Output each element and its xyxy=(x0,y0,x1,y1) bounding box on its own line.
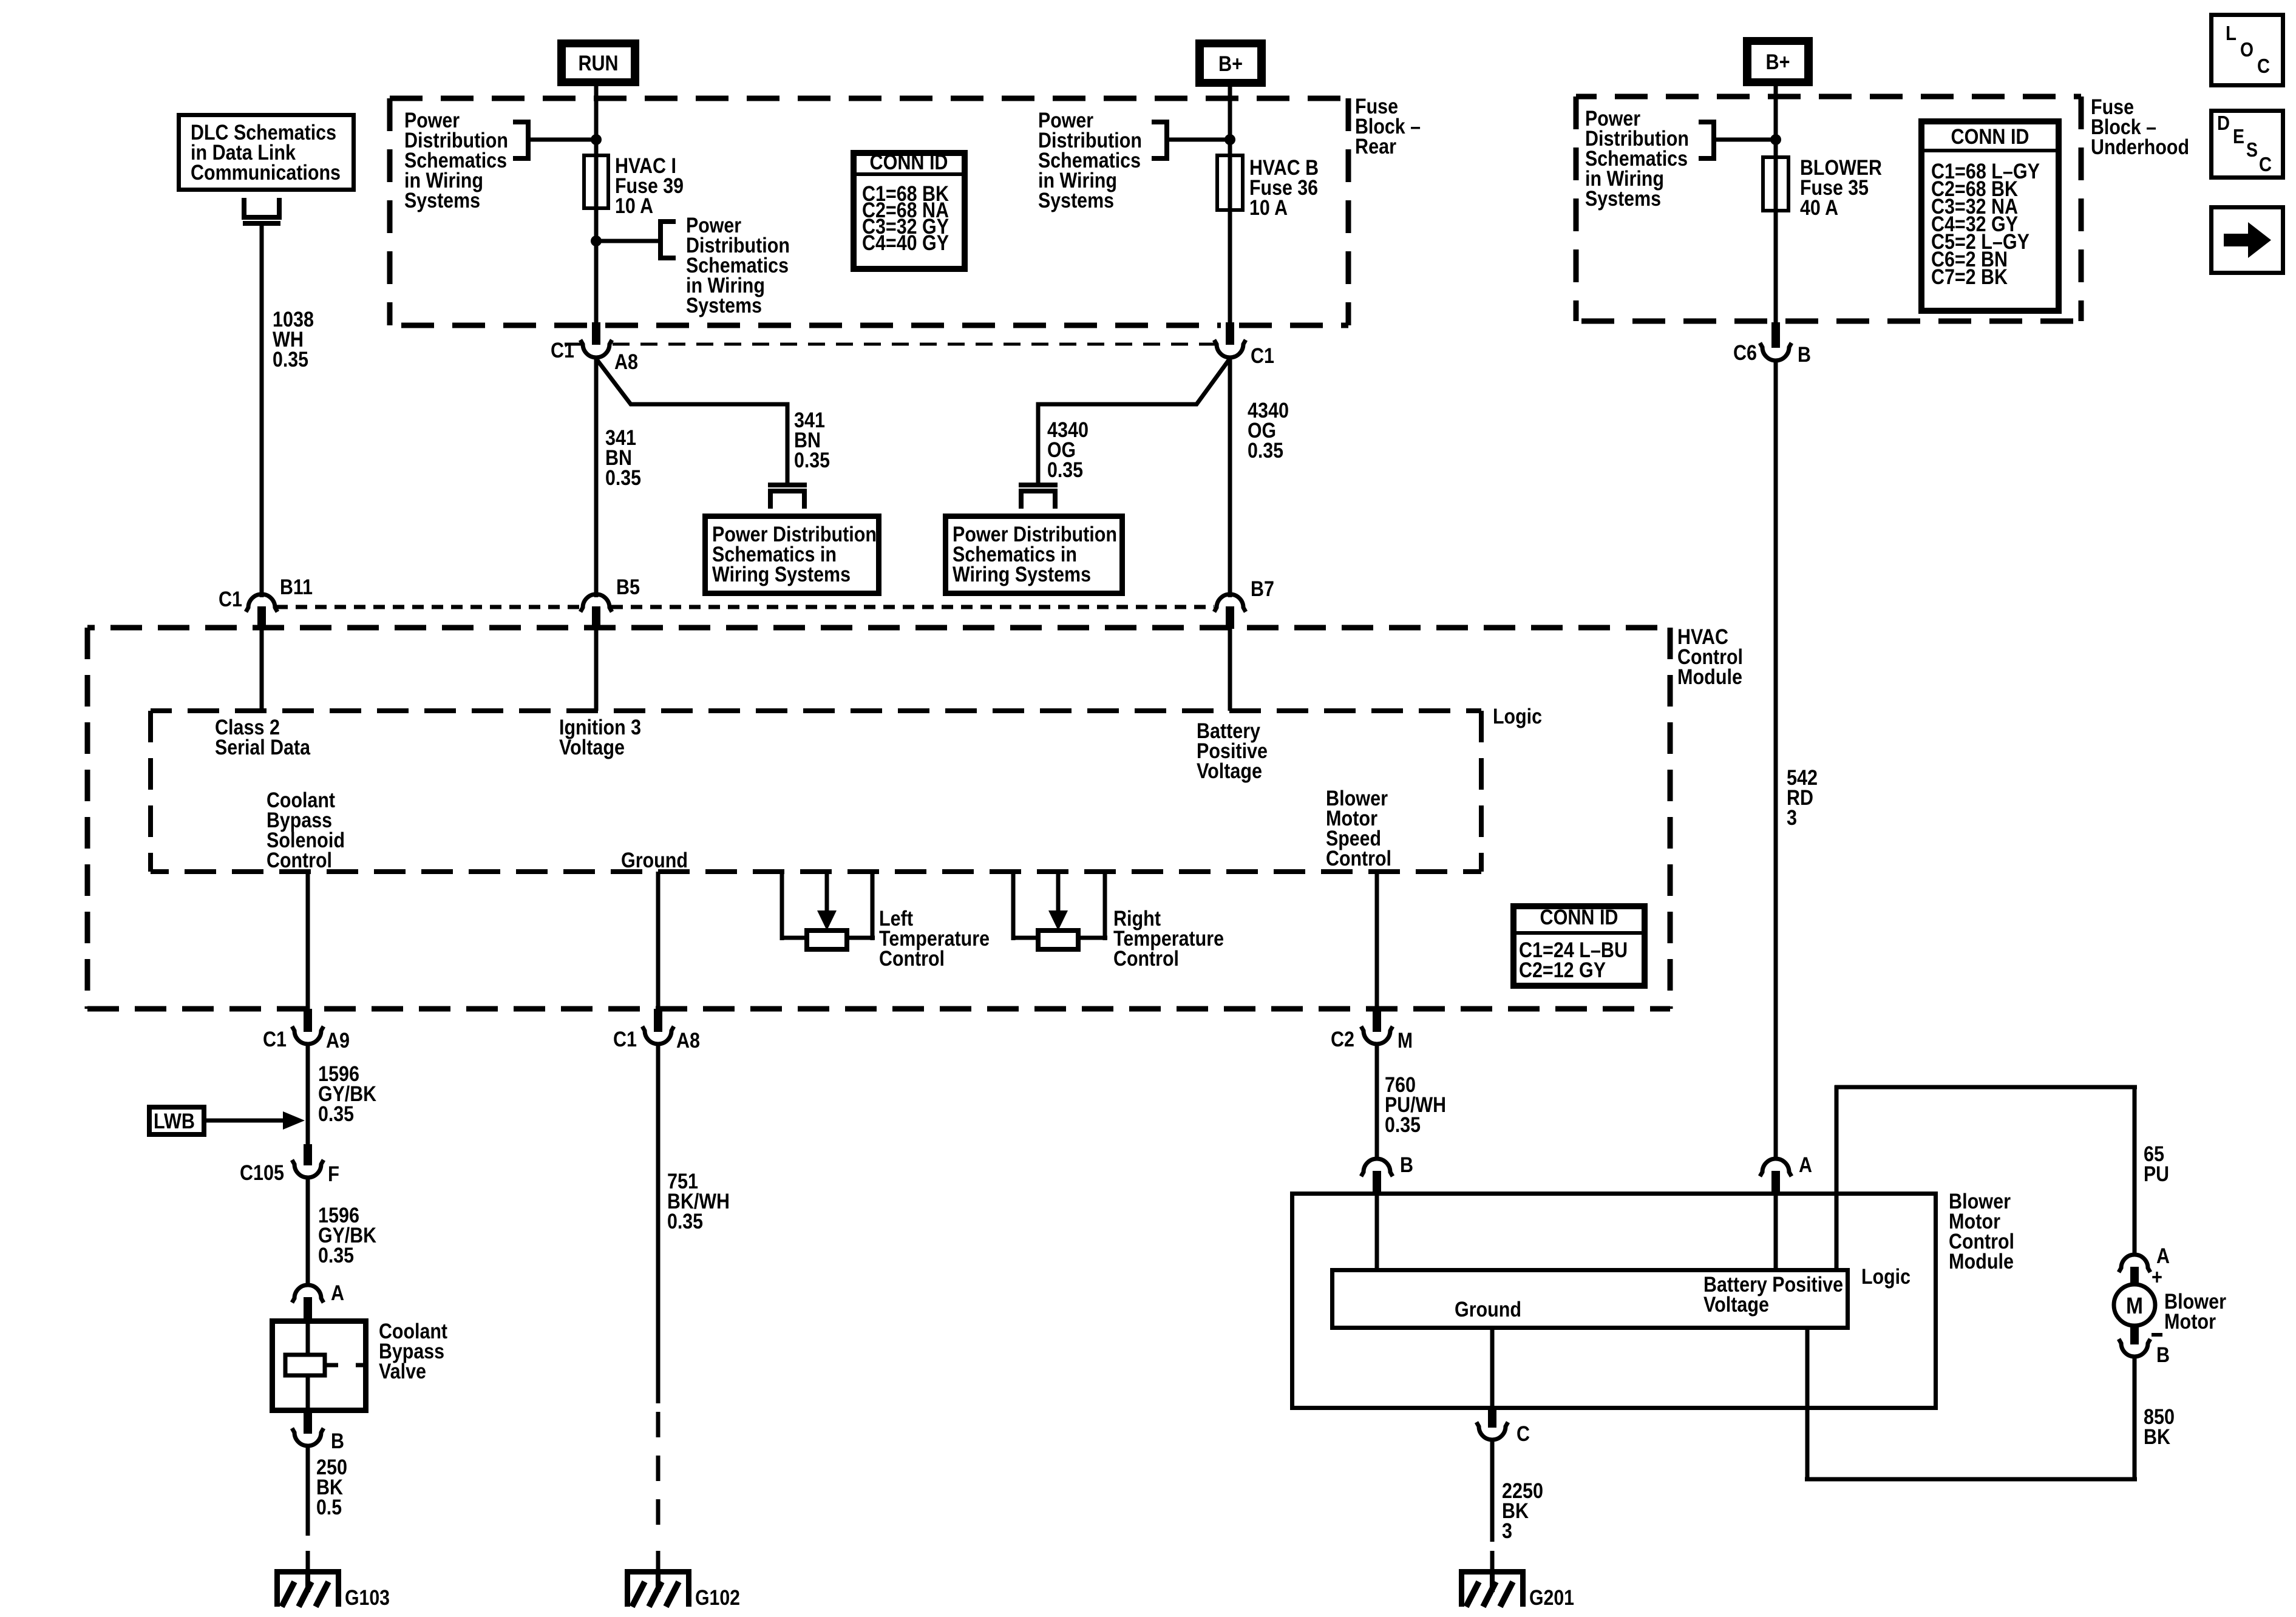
svg-text:RUN: RUN xyxy=(579,52,619,75)
svg-text:PU: PU xyxy=(2144,1162,2169,1186)
svg-text:0.35: 0.35 xyxy=(667,1210,703,1233)
svg-text:A8: A8 xyxy=(676,1029,700,1053)
svg-text:C105: C105 xyxy=(240,1161,284,1185)
svg-text:A: A xyxy=(1799,1153,1812,1177)
label A (blower module) xyxy=(1799,1153,1812,1177)
label B11 xyxy=(280,575,313,599)
fuse BLOWER Fuse 35 40 A xyxy=(1763,157,1788,211)
svg-text:10 A: 10 A xyxy=(1249,196,1288,220)
svg-text:G201: G201 xyxy=(1529,1586,1574,1610)
svg-text:Systems: Systems xyxy=(1038,189,1114,212)
svg-text:L: L xyxy=(2226,22,2237,44)
bracket to run feed wire xyxy=(513,120,596,161)
connector cup C1/A8 xyxy=(642,1026,674,1044)
svg-text:Systems: Systems xyxy=(686,294,762,317)
svg-text:S: S xyxy=(2246,138,2258,161)
connector cup C1/A8 xyxy=(580,340,612,358)
connector stub B into module xyxy=(1373,1171,1381,1193)
svg-text:A8: A8 xyxy=(614,350,638,374)
note Power Distribution Schematics in Wiring Systems (below fuse 39) xyxy=(686,214,790,317)
label Battery Positive Voltage xyxy=(1197,719,1268,783)
svg-text:0.35: 0.35 xyxy=(794,449,830,472)
label 250 BK 0.5 xyxy=(316,1456,347,1519)
wire 1038 from DLC to HVAC control module xyxy=(260,226,264,597)
connector dome B5 xyxy=(580,594,612,612)
label Blower Motor Speed Control xyxy=(1326,787,1391,870)
label A9 xyxy=(326,1029,350,1053)
svg-text:C1: C1 xyxy=(263,1028,287,1051)
connector cup C xyxy=(1476,1422,1508,1440)
svg-text:C: C xyxy=(2259,153,2272,175)
svg-text:CONN ID: CONN ID xyxy=(1951,125,2029,149)
wire 751 dashed part xyxy=(656,1412,661,1542)
label 760 PU/WH 0.35 xyxy=(1385,1073,1446,1137)
connector stub C6 xyxy=(1771,322,1780,348)
label C1 (A8) xyxy=(551,339,574,362)
label C105 xyxy=(240,1161,284,1185)
label 542 RD 3 xyxy=(1787,766,1818,830)
connector stub below B5 xyxy=(592,606,600,629)
connector dome A (blower module) xyxy=(1760,1159,1792,1176)
svg-text:O: O xyxy=(2240,38,2254,61)
wire 1596 lower xyxy=(306,1178,310,1287)
left temperature control potentiometer xyxy=(780,869,875,949)
svg-text:M: M xyxy=(1398,1029,1413,1053)
svg-text:E: E xyxy=(2233,125,2244,147)
svg-text:Wiring Systems: Wiring Systems xyxy=(712,563,851,586)
label Logic (blower module) xyxy=(1861,1265,1911,1289)
svg-text:B+: B+ xyxy=(1766,50,1790,74)
wire 250 BK xyxy=(306,1446,310,1536)
label Battery Positive Voltage (blower module) xyxy=(1703,1273,1843,1317)
label 341 BN 0.35 (branch) xyxy=(794,408,830,472)
wire RUN to fuse 39 xyxy=(594,86,599,324)
label 1596 GY/BK 0.35 (upper) xyxy=(318,1062,376,1126)
svg-text:40 A: 40 A xyxy=(1800,196,1838,220)
svg-text:3: 3 xyxy=(1502,1519,1512,1543)
svg-text:A9: A9 xyxy=(326,1029,350,1053)
label F xyxy=(328,1162,339,1186)
connector cup C1/A9 xyxy=(292,1026,324,1044)
connector cup C105/F xyxy=(292,1160,324,1178)
wire 850 BK xyxy=(1805,1330,2137,1482)
wire 760 PU/WH xyxy=(1375,1044,1379,1161)
wire 1596 upper xyxy=(306,1044,310,1146)
junction node on run feed xyxy=(591,134,602,145)
svg-text:Voltage: Voltage xyxy=(559,736,625,759)
connector stub below B11 xyxy=(257,606,266,629)
label Right Temperature Control xyxy=(1113,907,1224,971)
note Power Distribution Schematics in Wiring Systems (B+ rear) xyxy=(1038,109,1142,212)
svg-text:B: B xyxy=(331,1429,344,1453)
label A (blower motor) xyxy=(2156,1244,2170,1268)
svg-text:F: F xyxy=(328,1162,339,1186)
junction node on underhood feed xyxy=(1770,134,1781,145)
ground G102 xyxy=(625,1569,740,1610)
connector stub A to valve xyxy=(304,1297,312,1318)
label C1 (B11) xyxy=(219,588,242,611)
connector dome C1/B11 xyxy=(246,594,277,612)
connector dome B (blower module) xyxy=(1361,1159,1393,1176)
short-dash connector line at HVAC top xyxy=(276,605,1214,609)
fuse HVAC I Fuse 39 10 A xyxy=(584,155,608,208)
HVAC control module dashed outline xyxy=(87,628,1670,1009)
connector dome B7 xyxy=(1214,594,1246,612)
svg-text:LWB: LWB xyxy=(154,1110,195,1133)
svg-text:Communications: Communications xyxy=(191,161,341,185)
svg-text:D: D xyxy=(2217,112,2230,134)
svg-text:B11: B11 xyxy=(280,575,313,599)
right temperature control potentiometer xyxy=(1011,869,1108,949)
svg-text:B7: B7 xyxy=(1251,577,1274,601)
svg-text:Control: Control xyxy=(1326,847,1391,870)
svg-text:C: C xyxy=(2257,55,2270,77)
LWB arrow xyxy=(206,1111,305,1130)
svg-text:Systems: Systems xyxy=(404,189,480,212)
CONN ID table (fuse block underhood) xyxy=(1921,121,2059,311)
svg-text:Module: Module xyxy=(1677,665,1742,689)
label B (C6) xyxy=(1798,343,1811,367)
label C1 (B+ rear) xyxy=(1251,344,1274,368)
connector bracket above power distribution box (left) xyxy=(768,483,807,509)
svg-text:Rear: Rear xyxy=(1355,135,1396,158)
LWB reference box xyxy=(149,1107,204,1134)
wire 542 RD 3 xyxy=(1774,361,1778,1161)
svg-text:Serial Data: Serial Data xyxy=(215,736,310,759)
svg-text:B: B xyxy=(1400,1153,1413,1177)
svg-text:B5: B5 xyxy=(616,575,640,599)
wire label 1038 WH 0.35 xyxy=(273,308,314,371)
svg-text:C1: C1 xyxy=(613,1028,637,1051)
label A8 xyxy=(614,350,638,374)
wire class 2 serial data into module xyxy=(260,629,264,711)
label Coolant Bypass Valve xyxy=(379,1320,447,1383)
svg-text:Ground: Ground xyxy=(621,849,688,872)
connector stub C xyxy=(1488,1410,1496,1428)
power feed box B+ (rear) xyxy=(1195,39,1266,87)
svg-text:B: B xyxy=(2156,1343,2170,1367)
label Left Temperature Control xyxy=(879,907,990,971)
label 4340 OG 0.35 (main) xyxy=(1248,399,1289,463)
connector cup B (blower motor) xyxy=(2119,1339,2150,1357)
svg-text:0.35: 0.35 xyxy=(1385,1113,1421,1137)
svg-text:+: + xyxy=(2152,1266,2162,1289)
connector stub C1 A8 xyxy=(592,322,600,345)
svg-text:A: A xyxy=(331,1281,344,1305)
label Ground (HVAC) xyxy=(621,849,688,872)
svg-text:Motor: Motor xyxy=(2164,1310,2216,1334)
svg-text:C4=40 GY: C4=40 GY xyxy=(862,231,949,255)
note Power Distribution Schematics in Wiring Systems (run feed) xyxy=(404,109,508,212)
label Ignition 3 Voltage xyxy=(559,716,641,759)
ground G103 xyxy=(274,1569,390,1610)
label 2250 BK 3 xyxy=(1502,1479,1543,1543)
connector dome A (valve) xyxy=(292,1285,324,1303)
label HVAC Control Module xyxy=(1677,625,1743,689)
connector cup C6/B xyxy=(1760,343,1792,361)
svg-text:C2: C2 xyxy=(1331,1028,1354,1051)
forward arrow box xyxy=(2212,208,2283,273)
svg-text:0.35: 0.35 xyxy=(318,1244,354,1267)
ground stem G201 xyxy=(1490,1551,1495,1569)
bracket to power distribution note (right) xyxy=(596,219,676,260)
svg-text:M: M xyxy=(2126,1293,2143,1319)
svg-text:C1: C1 xyxy=(551,339,574,362)
svg-text:A: A xyxy=(2156,1244,2170,1268)
connector stub C105 xyxy=(304,1144,312,1165)
label A (valve) xyxy=(331,1281,344,1305)
wire blower motor speed control xyxy=(1375,872,1379,1009)
wire ground from logic box xyxy=(1490,1330,1495,1410)
svg-text:Ground: Ground xyxy=(1455,1298,1521,1321)
wire B+ underhood to fuse 35 xyxy=(1774,86,1778,324)
power feed box B+ (underhood) xyxy=(1743,37,1813,86)
svg-text:Control: Control xyxy=(267,849,332,872)
label B (blower motor) xyxy=(2156,1343,2170,1367)
connector stub below B7 xyxy=(1226,606,1234,629)
svg-text:Systems: Systems xyxy=(1585,187,1661,211)
svg-text:Logic: Logic xyxy=(1861,1265,1911,1289)
svg-text:C6: C6 xyxy=(1733,341,1757,365)
label B5 xyxy=(616,575,640,599)
label Fuse Block Underhood xyxy=(2091,95,2189,159)
label B7 xyxy=(1251,577,1274,601)
wire ignition 3 voltage into module xyxy=(594,629,599,711)
label B (valve) xyxy=(331,1429,344,1453)
svg-text:0.5: 0.5 xyxy=(316,1496,342,1519)
connector stub C1 (B+ rear) xyxy=(1226,322,1234,345)
wire coolant bypass solenoid control xyxy=(306,872,310,1009)
label 850 BK xyxy=(2144,1405,2175,1449)
fuse HVAC B Fuse 36 10 A xyxy=(1217,155,1243,210)
label Ground (blower module) xyxy=(1455,1298,1521,1321)
power distribution schematics box (left) xyxy=(705,517,879,594)
wire B+ to fuse 36 xyxy=(1228,87,1232,324)
label C1 xyxy=(263,1028,287,1051)
connector bracket above power distribution box (right) xyxy=(1019,483,1058,509)
svg-text:B: B xyxy=(1798,343,1811,367)
wire ground (HVAC) xyxy=(656,872,661,1009)
label 751 BK/WH 0.35 xyxy=(667,1170,730,1233)
wire loop from logic to blower motor (65 PU) xyxy=(1835,1085,2138,1269)
label M xyxy=(1398,1029,1413,1053)
connector cup C1 (B+ rear) xyxy=(1214,340,1246,358)
svg-text:C2=12 GY: C2=12 GY xyxy=(1519,958,1606,982)
branch wire 341 to power distribution xyxy=(596,359,787,483)
label Class 2 Serial Data xyxy=(215,716,310,759)
svg-text:CONN ID: CONN ID xyxy=(1540,906,1618,929)
svg-text:0.35: 0.35 xyxy=(318,1102,354,1126)
branch wire 4340 to power distribution xyxy=(1038,359,1229,483)
label - terminal xyxy=(2152,1333,2162,1337)
ground stem G103 xyxy=(306,1551,310,1569)
blower motor M circle xyxy=(2114,1284,2155,1326)
CONN ID table (fuse block rear) xyxy=(854,151,965,269)
connector stub (C2/M) xyxy=(1373,1009,1381,1032)
label Coolant Bypass Solenoid Control xyxy=(267,788,345,872)
svg-text:C7=2 BK: C7=2 BK xyxy=(1931,265,2008,289)
label C xyxy=(1517,1422,1530,1446)
label Logic (HVAC) xyxy=(1493,705,1542,728)
wire B to logic (inside module) xyxy=(1375,1193,1379,1268)
connector stub B (valve) xyxy=(304,1413,312,1434)
label B (blower module) xyxy=(1400,1153,1413,1177)
connector stub (C1/A8) xyxy=(654,1009,662,1032)
bracket to underhood feed wire xyxy=(1699,120,1776,161)
wire 2250 BK 3 xyxy=(1490,1440,1495,1542)
power distribution schematics box (right) xyxy=(946,517,1123,594)
junction node below fuse 39 xyxy=(591,236,602,246)
logic block dashed outline xyxy=(151,711,1481,872)
svg-text:Control: Control xyxy=(879,947,945,971)
label 1596 GY/BK 0.35 (lower) xyxy=(318,1204,376,1267)
fuse block rear dashed outline xyxy=(390,98,1348,325)
wire 4340 battery positive xyxy=(1228,358,1232,597)
svg-text:G103: G103 xyxy=(345,1586,390,1610)
svg-text:3: 3 xyxy=(1787,806,1797,830)
svg-text:C1: C1 xyxy=(219,588,242,611)
label 4340 OG 0.35 (branch) xyxy=(1047,418,1089,482)
DLC Schematics reference box xyxy=(179,115,354,190)
connector stub A into module xyxy=(1771,1171,1780,1193)
label HVAC B Fuse 36 10 A xyxy=(1249,156,1319,220)
label Blower Motor xyxy=(2164,1290,2226,1334)
fuse block underhood dashed outline xyxy=(1576,97,2081,321)
connector stub (C1/A9) xyxy=(304,1009,312,1032)
blower motor control module box xyxy=(1292,1194,1936,1408)
connector cup B (valve) xyxy=(292,1428,324,1446)
label C6 xyxy=(1733,341,1757,365)
svg-text:Voltage: Voltage xyxy=(1703,1293,1769,1317)
connector bracket below DLC box xyxy=(242,198,282,226)
svg-text:Logic: Logic xyxy=(1493,705,1542,728)
ground G201 xyxy=(1459,1569,1574,1610)
label BLOWER Fuse 35 40 A xyxy=(1800,156,1882,220)
svg-text:G102: G102 xyxy=(695,1586,740,1610)
wire battery positive into module xyxy=(1228,629,1232,711)
connector cup C2/M xyxy=(1361,1026,1393,1044)
svg-text:C: C xyxy=(1517,1422,1530,1446)
bracket to B+ rear wire xyxy=(1152,120,1230,161)
connector stub into motor xyxy=(2130,1267,2139,1286)
svg-text:Valve: Valve xyxy=(379,1360,426,1383)
wire 751 BK/WH solid part xyxy=(656,1044,661,1403)
connector stub below motor xyxy=(2130,1324,2139,1344)
wire A to logic (inside module) xyxy=(1774,1193,1778,1268)
svg-text:Underhood: Underhood xyxy=(2091,135,2189,159)
svg-text:Wiring Systems: Wiring Systems xyxy=(953,563,1091,586)
svg-text:C1: C1 xyxy=(1251,344,1274,368)
LOC legend box xyxy=(2212,15,2283,86)
junction node on B+ rear wire xyxy=(1224,134,1235,145)
svg-text:B+: B+ xyxy=(1218,52,1243,76)
DESC legend box xyxy=(2212,111,2283,178)
wire 341 ignition voltage xyxy=(594,358,599,597)
label C1 xyxy=(613,1028,637,1051)
power feed box RUN xyxy=(557,39,639,86)
svg-text:Module: Module xyxy=(1949,1250,2014,1273)
label 341 BN 0.35 (main) xyxy=(605,426,641,490)
svg-text:0.35: 0.35 xyxy=(273,348,308,371)
logic box inside blower module xyxy=(1333,1270,1848,1328)
svg-text:Control: Control xyxy=(1113,947,1179,971)
label A8 xyxy=(676,1029,700,1053)
connector dome A (blower motor) xyxy=(2119,1255,2150,1272)
label HVAC I Fuse 39 10 A xyxy=(615,154,684,218)
svg-text:CONN ID: CONN ID xyxy=(870,151,948,174)
ground stem G102 xyxy=(656,1551,661,1569)
label + terminal xyxy=(2152,1266,2162,1289)
svg-text:Voltage: Voltage xyxy=(1197,759,1262,783)
label Fuse Block Rear xyxy=(1355,95,1421,158)
label Blower Motor Control Module xyxy=(1949,1190,2014,1273)
note Power Distribution Schematics in Wiring Systems (underhood) xyxy=(1585,107,1689,211)
svg-text:BK: BK xyxy=(2144,1425,2170,1449)
svg-text:10 A: 10 A xyxy=(615,194,653,218)
svg-text:0.35: 0.35 xyxy=(1248,439,1283,463)
thin dashed connector line C1 xyxy=(565,343,1215,346)
label C2 xyxy=(1331,1028,1354,1051)
CONN ID table (HVAC control module) xyxy=(1513,906,1645,986)
svg-text:0.35: 0.35 xyxy=(605,466,641,490)
label 65 PU xyxy=(2144,1142,2169,1186)
svg-text:0.35: 0.35 xyxy=(1047,458,1083,482)
coolant bypass valve box with solenoid xyxy=(273,1321,367,1411)
